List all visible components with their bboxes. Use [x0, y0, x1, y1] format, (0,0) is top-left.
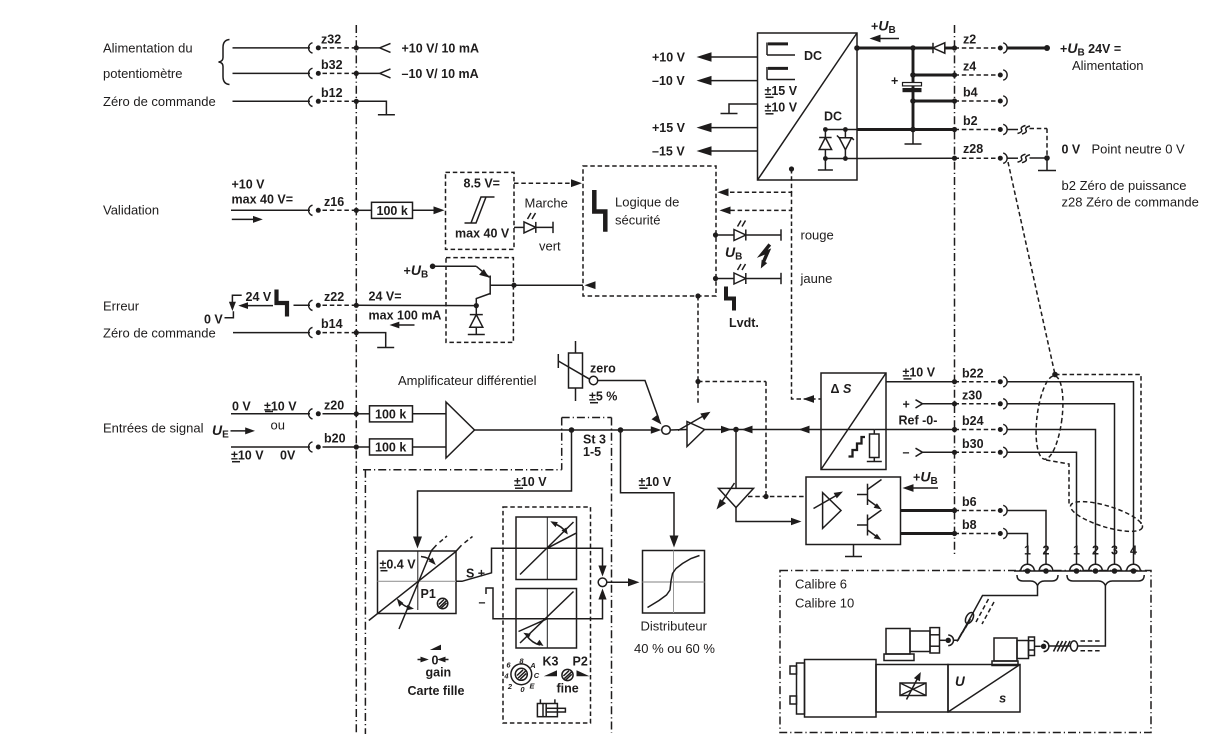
svg-text:+: +: [903, 397, 910, 411]
svg-text:Ref -0-: Ref -0-: [899, 414, 938, 428]
wire b12: [233, 100, 311, 102]
arrow +UB opto: [910, 487, 938, 489]
svg-text:±10 V: ±10 V: [765, 101, 798, 115]
svg-text:fine: fine: [557, 682, 579, 696]
svg-text:0 V: 0 V: [204, 313, 223, 327]
connector b30: [955, 451, 997, 453]
potentiometer zero: [575, 341, 577, 353]
wire b32 dashed: [323, 72, 357, 74]
connector z20: [309, 409, 313, 419]
daughter card dash-dot horizontal y470: [363, 469, 562, 471]
svg-text:±5 %: ±5 %: [589, 390, 617, 404]
svg-text:max 40 V=: max 40 V=: [232, 192, 294, 206]
wire b2: [857, 128, 955, 131]
svg-text:+UB 24V =: +UB 24V =: [1060, 40, 1121, 59]
connector b20: [309, 442, 313, 452]
node b4 junction: [910, 98, 916, 104]
squarewave glyph 2: [767, 67, 795, 80]
gain zero arrows: [418, 659, 426, 661]
op-amp U1 triangle: [446, 402, 475, 458]
wire z16: [231, 209, 310, 211]
node z22: [354, 303, 359, 308]
svg-text:100 k: 100 k: [375, 441, 406, 455]
P1 axis horizontal gray: [378, 580, 457, 582]
wire z16 to resistor: [356, 209, 371, 211]
connector z16: [309, 205, 313, 215]
resistor 100k validation: [372, 202, 413, 218]
svg-text:2: 2: [1092, 544, 1099, 558]
svg-text:2: 2: [507, 682, 513, 691]
svg-text:Carte fille: Carte fille: [408, 684, 465, 698]
wire summing to limiter: [670, 429, 687, 432]
ramp box lower: [516, 589, 577, 649]
LED vert: [514, 226, 524, 228]
ground diode: [468, 334, 485, 336]
brace quad group: [1067, 575, 1144, 586]
svg-text:24 V: 24 V: [246, 290, 272, 304]
strike arrow limiter lower: [721, 483, 735, 503]
logic safety dashed box: [583, 166, 716, 296]
P1 axis vertical: [417, 551, 419, 610]
wire 100k lower to amp: [413, 446, 447, 448]
P1 main diagonal: [369, 545, 462, 620]
wedge left of P2: [544, 670, 557, 676]
staircase glyph: [849, 437, 866, 457]
wire z32 out: [356, 47, 379, 49]
wire S+: [456, 548, 516, 581]
connector z32: [309, 43, 313, 53]
P1 steep diagonal: [399, 545, 437, 629]
wire Ref out: [874, 429, 954, 431]
svg-text:b2: b2: [963, 114, 978, 128]
node b2 junction: [910, 127, 916, 133]
svg-text:3: 3: [1111, 544, 1118, 558]
svg-text:–10 V/ 10 mA: –10 V/ 10 mA: [402, 67, 479, 81]
svg-text:Alimentation: Alimentation: [1072, 58, 1144, 73]
arrow chevron +10V: [380, 43, 391, 52]
svg-text:±10 V: ±10 V: [514, 475, 547, 489]
svg-text:+: +: [891, 74, 898, 88]
svg-text:100 k: 100 k: [375, 408, 406, 422]
wire b24 to terminal 2: [1007, 430, 1096, 565]
screw P2: [562, 669, 573, 680]
step glyph erreur: [277, 290, 288, 317]
svg-text:b6: b6: [962, 495, 977, 509]
wire b20: [231, 446, 310, 448]
wire through deltaS: [821, 429, 874, 431]
cable clamp right: [1070, 641, 1077, 651]
svg-text:b22: b22: [962, 366, 984, 380]
svg-text:8.5 V=: 8.5 V=: [464, 176, 501, 190]
wire zero to summing: [598, 381, 659, 419]
24V step annotation: [232, 295, 241, 303]
svg-text:+10 V: +10 V: [652, 50, 686, 64]
svg-text:max 40 V: max 40 V: [455, 226, 510, 240]
arrow under validation: [232, 218, 256, 220]
cable pair to left solenoid: [954, 586, 1038, 641]
wire b12 dashed: [323, 100, 357, 102]
connector z28: [955, 157, 997, 159]
svg-text:40 % ou 60 %: 40 % ou 60 %: [634, 641, 715, 656]
wire z22 to transistor base: [356, 304, 476, 306]
svg-text:Calibre 10: Calibre 10: [795, 596, 854, 611]
wire b30 to terminal 1: [1007, 452, 1077, 564]
arrow into summing: [621, 429, 653, 431]
ground b14: [377, 347, 394, 349]
shield ellipse lower: [1068, 495, 1146, 537]
daughter card dash-dot vertical x365.4: [364, 470, 366, 734]
shield dashed from z28: [1008, 162, 1055, 375]
ramp lower arc arrow: [527, 636, 541, 646]
svg-text:C: C: [534, 671, 540, 680]
shield ellipse upper: [1032, 374, 1067, 460]
cable screen hatch left: [957, 619, 970, 642]
summing node circle: [662, 426, 671, 435]
svg-text:z20: z20: [324, 398, 344, 412]
wire b6 to pair terminal 2: [1007, 511, 1047, 565]
svg-text:DC: DC: [824, 110, 842, 124]
ramp upper arc arrow: [554, 524, 567, 533]
ground stub left: [729, 104, 758, 113]
wire diode pair top to b2 row: [825, 129, 857, 131]
svg-text:sécurité: sécurité: [615, 213, 661, 228]
svg-text:b32: b32: [321, 58, 343, 72]
svg-text:+15 V: +15 V: [652, 121, 686, 135]
wire ramp lower out: [577, 594, 603, 619]
connector b2: [955, 129, 997, 131]
opto strike arrow: [814, 495, 839, 509]
wire b12 to ground: [356, 101, 386, 114]
svg-text:U: U: [955, 674, 966, 689]
diode D2 in box: [823, 127, 828, 132]
phototransistor 2: [857, 524, 868, 526]
cable clamp left: [964, 611, 976, 625]
P1 gain box: [378, 551, 457, 614]
svg-text:–10 V: –10 V: [652, 74, 685, 88]
wire St3 crossing: [572, 429, 621, 431]
dashed arrow 2 into logic: [792, 192, 822, 399]
svg-text:gain: gain: [426, 666, 452, 680]
terminal sockets: [1021, 564, 1141, 574]
output +15V: [711, 127, 758, 129]
transistor dashed box: [446, 258, 513, 343]
svg-text:b30: b30: [962, 437, 984, 451]
connector b24: [955, 429, 997, 431]
limiter triangle upper: [687, 422, 705, 447]
dashed control from logic to limiter: [697, 296, 699, 404]
node St3 left: [569, 427, 575, 433]
dashed from DC box bottom node: [789, 166, 794, 171]
svg-text:S +: S +: [466, 567, 485, 581]
node z20: [354, 411, 359, 416]
wire transistor to logic: [514, 284, 583, 286]
svg-text:Erreur: Erreur: [103, 299, 140, 314]
wire z16 dashed: [323, 209, 357, 211]
optocoupler box U4: [806, 477, 901, 545]
wire z30 to terminal 3: [1007, 404, 1115, 565]
connector z2: [955, 47, 997, 49]
svg-text:ou: ou: [271, 418, 285, 433]
wedge right of P2: [577, 670, 590, 676]
arrow UE: [231, 430, 249, 432]
node b20: [354, 444, 359, 449]
distributor box: [643, 551, 705, 614]
svg-text:0V: 0V: [280, 449, 296, 463]
wire b4: [913, 100, 955, 103]
svg-text:±10 V: ±10 V: [903, 366, 936, 380]
node UB rail: [910, 45, 916, 51]
connector b4: [955, 100, 997, 102]
wire ramp upper out: [577, 548, 603, 572]
main card dash-dot edge x611.5: [611, 418, 613, 734]
svg-text:vert: vert: [539, 239, 561, 254]
node +UB: [430, 264, 436, 270]
resistor 100k upper: [370, 406, 413, 422]
node St3 right: [618, 427, 624, 433]
svg-text:Zéro de commande: Zéro de commande: [103, 94, 216, 109]
connector b6: [955, 510, 997, 512]
wire S-: [486, 588, 516, 619]
svg-text:P1: P1: [421, 587, 436, 601]
zener D3 in box: [843, 127, 848, 132]
wire z4: [913, 74, 955, 77]
wire amp out to St3: [475, 429, 572, 431]
wire diode pair bottom to z28 row: [825, 158, 857, 160]
step glyph logic: [594, 190, 605, 232]
svg-text:K3: K3: [543, 655, 559, 669]
svg-text:Distributeur: Distributeur: [641, 619, 708, 634]
svg-text:Validation: Validation: [103, 203, 159, 218]
wire b6: [901, 509, 955, 512]
node main: [733, 427, 739, 433]
LED rouge: [713, 232, 718, 237]
svg-text:max 100 mA: max 100 mA: [369, 308, 442, 322]
node DC out: [854, 45, 860, 51]
ground opto: [853, 545, 855, 557]
screw P1: [437, 598, 447, 608]
svg-text:Entrées de signal: Entrées de signal: [103, 421, 204, 436]
ground z28: [1046, 158, 1048, 170]
svg-text:Δ S: Δ S: [831, 382, 852, 396]
limiter triangle lower: [719, 488, 754, 507]
svg-text:Logique de: Logique de: [615, 195, 679, 210]
brace: [219, 40, 230, 85]
svg-text:±0.4 V: ±0.4 V: [380, 558, 417, 572]
left solenoid plug: [886, 629, 910, 655]
connector b22: [955, 381, 997, 383]
svg-text:0 V: 0 V: [232, 400, 251, 414]
vertical UB bus: [912, 48, 915, 130]
svg-text:jaune: jaune: [800, 271, 833, 286]
P1 arc arrow upper: [421, 557, 434, 563]
svg-text:1-5: 1-5: [583, 445, 601, 459]
card edge dash-dot line left x356: [355, 25, 357, 734]
valve left cap: [797, 663, 805, 714]
svg-text:b8: b8: [962, 518, 977, 532]
svg-text:Marche: Marche: [525, 196, 568, 211]
svg-text:b20: b20: [324, 432, 346, 446]
ground UB bus: [912, 130, 914, 144]
shield dashed mid: [1046, 460, 1069, 505]
valve U/s block: [948, 665, 1020, 713]
cylinder symbol: [539, 699, 541, 703]
svg-text:1: 1: [1073, 544, 1080, 558]
connector b8: [955, 533, 997, 535]
svg-text:2: 2: [1043, 544, 1050, 558]
solid segment under terminals: [1014, 570, 1147, 572]
opto LED triangle: [823, 493, 841, 529]
svg-text:4: 4: [503, 672, 509, 681]
node z2: [952, 45, 957, 50]
cable quad to right solenoid: [1078, 586, 1106, 647]
wire to 100k lower: [356, 446, 369, 448]
wire St3 to distributor: [621, 430, 675, 543]
svg-text:Lvdt.: Lvdt.: [729, 316, 759, 330]
wire z28 break: [1007, 157, 1019, 159]
wire to 100k upper: [356, 413, 369, 415]
output -15V: [711, 150, 758, 152]
dashed arrow out of delta-S: [803, 395, 814, 403]
wire b22 out: [886, 381, 955, 383]
svg-text:Zéro de commande: Zéro de commande: [103, 326, 216, 341]
Calibre dash-dot box: [780, 571, 1151, 733]
rotary switch K3: [511, 664, 532, 685]
card edge dash-dot line right x954.5: [954, 25, 956, 557]
terminal numbers: [1024, 544, 1137, 558]
right solenoid plug: [994, 638, 1017, 661]
svg-text:b2 Zéro de puissance: b2 Zéro de puissance: [1062, 178, 1187, 193]
lightning bolt: [762, 245, 770, 264]
K3 dashed box: [503, 507, 591, 723]
svg-text:A: A: [529, 661, 535, 670]
svg-text:+10 V: +10 V: [232, 178, 266, 192]
wire z28: [857, 157, 955, 159]
connector z22: [309, 300, 313, 310]
wire deltaS to node: [736, 429, 821, 431]
left solenoid pin: [946, 638, 951, 643]
svg-text:24 V=: 24 V=: [369, 289, 402, 303]
svg-text:zero: zero: [590, 362, 616, 376]
squarewave glyph 1: [767, 43, 795, 56]
output node circle: [598, 578, 607, 587]
wiper node circle: [589, 376, 597, 384]
output -10V: [711, 80, 758, 82]
node b12: [354, 99, 359, 104]
svg-text:b4: b4: [963, 86, 978, 100]
resistor R2: [873, 430, 875, 435]
wire limiter to node: [705, 429, 737, 431]
node z32: [354, 45, 359, 50]
node logic bottom: [695, 293, 700, 298]
brace pair group: [1017, 575, 1058, 586]
connector b14: [309, 327, 313, 337]
arrow chevron -10V: [380, 69, 391, 78]
svg-text:1: 1: [1024, 544, 1031, 558]
svg-text:z2: z2: [963, 33, 976, 47]
step glyph Lvdt: [726, 287, 734, 311]
svg-text:z28 Zéro de commande: z28 Zéro de commande: [1062, 195, 1199, 210]
arrow +UB left: [877, 38, 899, 40]
wire b8: [901, 532, 955, 535]
LED jaune: [713, 276, 718, 281]
svg-text:–15 V: –15 V: [652, 144, 685, 158]
distributor S-curve: [648, 556, 700, 608]
St3 connector dash-dot x561.7: [561, 418, 563, 470]
wire z32 dashed: [323, 47, 357, 49]
phototransistor 1: [857, 494, 868, 496]
svg-text:4: 4: [1130, 544, 1137, 558]
wire b14 to ground: [356, 333, 385, 347]
node b32: [354, 71, 359, 76]
svg-text:b14: b14: [321, 317, 343, 331]
svg-text:z30: z30: [962, 388, 982, 402]
output +10V: [711, 56, 758, 58]
svg-text:P2: P2: [573, 655, 588, 669]
svg-text:rouge: rouge: [801, 228, 834, 243]
svg-text:±10 V: ±10 V: [231, 449, 264, 463]
ground b12: [378, 114, 395, 116]
wire b14 dashed: [323, 332, 357, 334]
dashed arrow to logic box: [514, 182, 574, 184]
diode D1: [475, 306, 477, 315]
valve left block: [805, 660, 877, 718]
svg-text:±15 V: ±15 V: [765, 84, 798, 98]
svg-text:0 V: 0 V: [1062, 143, 1081, 157]
gain wedge: [430, 645, 441, 650]
svg-text:DC: DC: [804, 49, 822, 63]
svg-text:Amplificateur différentiel: Amplificateur différentiel: [398, 373, 537, 388]
wire limiter lower to opto: [736, 508, 797, 522]
P1 arc arrow lower: [400, 602, 412, 609]
node emitter out: [511, 283, 516, 288]
wire b22 to terminal 4: [1007, 382, 1134, 565]
connector b32: [309, 68, 313, 78]
svg-text:z16: z16: [324, 195, 344, 209]
svg-text:s: s: [999, 691, 1006, 706]
wire node down to limiter lower: [735, 430, 737, 489]
wire z20: [231, 413, 310, 415]
diode D4 z2: [932, 43, 934, 53]
svg-text:Point neutre 0 V: Point neutre 0 V: [1092, 142, 1186, 157]
arrow to distributor: [607, 581, 631, 583]
proportional symbol: [900, 683, 926, 696]
strike arrow limiter upper: [678, 416, 704, 431]
St3 connector dash-dot top bar: [562, 417, 612, 419]
svg-text:z28: z28: [963, 142, 983, 156]
wire z22: [294, 304, 311, 306]
wire b32: [233, 72, 311, 74]
cable screen hatch right: [1054, 641, 1071, 652]
svg-text:+10 V/ 10 mA: +10 V/ 10 mA: [402, 41, 479, 55]
svg-text:potentiomètre: potentiomètre: [103, 66, 183, 81]
svg-text:Calibre 6: Calibre 6: [795, 577, 847, 592]
svg-text:100 k: 100 k: [377, 204, 408, 218]
node z16: [354, 208, 359, 213]
svg-text:z22: z22: [324, 290, 344, 304]
ramp box upper: [516, 517, 577, 580]
connector b12: [309, 96, 313, 106]
resistor 100k lower: [370, 439, 413, 455]
hysteresis symbol: [465, 197, 495, 223]
svg-text:±10 V: ±10 V: [639, 475, 672, 489]
svg-text:b24: b24: [962, 414, 984, 428]
dashed control node: [695, 379, 700, 384]
ground in DC box: [818, 169, 833, 171]
wire St3 to P1: [418, 430, 572, 544]
svg-text:–: –: [479, 596, 486, 610]
wire resistor to hysteresis box: [413, 209, 437, 211]
delta-S box U3: [821, 373, 886, 470]
